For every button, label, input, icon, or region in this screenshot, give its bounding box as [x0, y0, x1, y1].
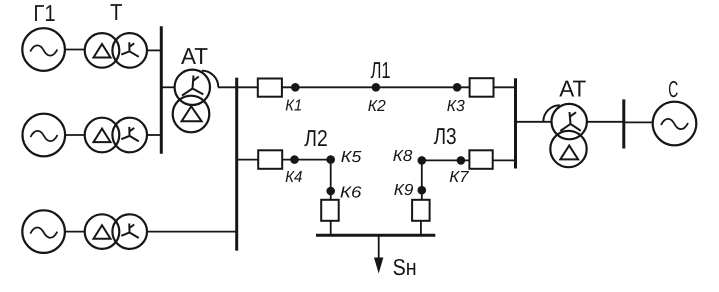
- svg-text:С: С: [668, 76, 678, 102]
- right bus: [514, 78, 517, 168]
- svg-text:Sн: Sн: [393, 254, 417, 280]
- transformer T1: [85, 33, 147, 68]
- autotransformer AT2: [543, 104, 587, 167]
- wire К8 down to load breaker: [421, 160, 423, 199]
- generator Г3: [22, 210, 65, 253]
- autotransformer AT1: [173, 70, 219, 133]
- wire К5 down to load breaker: [330, 160, 332, 200]
- system bar: [622, 99, 625, 148]
- wire left bus to AT1: [161, 86, 175, 88]
- wire load breaker left to load bus: [330, 221, 332, 236]
- wire system bar to C: [624, 121, 653, 123]
- load bus: [316, 234, 435, 237]
- node К6: [326, 187, 335, 196]
- svg-text:К3: К3: [447, 98, 465, 115]
- svg-text:Л3: Л3: [434, 123, 457, 149]
- node К1: [291, 83, 300, 92]
- main bus: [235, 78, 238, 251]
- system C: [653, 102, 697, 146]
- breaker Л1 right: [470, 78, 494, 97]
- breaker load left: [321, 200, 339, 221]
- wire main bus to breaker Л2: [237, 159, 259, 161]
- transformer T2: [85, 118, 147, 153]
- line Л2: [282, 159, 331, 161]
- load arrow Sн: [374, 235, 383, 273]
- line Л3: [422, 159, 470, 161]
- node К7: [457, 156, 466, 165]
- wire breaker Л3 to right bus: [493, 159, 516, 161]
- svg-text:Т: Т: [110, 0, 123, 25]
- wire breaker Л1-right to right bus: [494, 86, 516, 88]
- breaker Л3: [469, 150, 492, 169]
- wire Г2 to T2: [65, 134, 85, 136]
- wire AT2 to system bar: [586, 121, 624, 123]
- svg-text:АТ: АТ: [559, 75, 586, 101]
- transformer T3: [85, 214, 147, 249]
- svg-text:К5: К5: [341, 149, 362, 166]
- svg-text:К1: К1: [285, 97, 302, 114]
- wire Г1 to T1: [65, 49, 85, 51]
- generator Г1: [22, 28, 65, 71]
- wire Г3 to T3: [65, 231, 85, 233]
- wire T1 to left bus: [147, 49, 161, 51]
- svg-text:К7: К7: [449, 169, 469, 186]
- wire load breaker right to load bus: [420, 221, 422, 236]
- wire right bus to AT2: [516, 121, 553, 123]
- breaker Л1 left: [258, 79, 282, 97]
- svg-text:К8: К8: [393, 148, 413, 165]
- breaker Л2: [258, 150, 282, 169]
- left bus: [160, 26, 163, 154]
- svg-text:Л1: Л1: [371, 57, 391, 83]
- node К3: [453, 83, 462, 92]
- svg-text:Г1: Г1: [33, 0, 55, 26]
- generator Г2: [23, 114, 66, 157]
- node К8: [418, 156, 427, 165]
- node К9: [418, 186, 427, 195]
- svg-text:АТ: АТ: [181, 43, 208, 69]
- node К4: [290, 155, 299, 164]
- wire AT1 to breaker Л1-left: [218, 86, 258, 88]
- svg-text:Л2: Л2: [304, 125, 328, 151]
- svg-text:К4: К4: [285, 169, 302, 186]
- svg-text:К2: К2: [368, 98, 386, 115]
- line Л1: [282, 86, 470, 88]
- wire T2 to left bus: [147, 134, 161, 136]
- node К5: [326, 155, 335, 164]
- node К2: [372, 83, 381, 92]
- wire T3 to main bus: [147, 231, 237, 233]
- svg-text:К6: К6: [340, 184, 362, 201]
- breaker load right: [412, 200, 430, 221]
- svg-text:К9: К9: [394, 182, 414, 199]
